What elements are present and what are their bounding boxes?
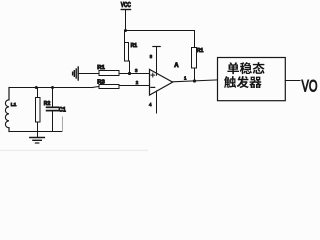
svg-text:R1: R1 [197,48,204,54]
svg-text:4: 4 [149,102,152,107]
svg-text:R1: R1 [97,65,105,71]
label 触发器 [224,76,262,88]
node output junction [193,79,196,82]
capacitor C1 [47,88,67,132]
wire op-amp V+ stub [153,47,160,76]
svg-text:L1: L1 [11,102,17,107]
resistor R1 right vertical [192,48,204,82]
label 单稳态 [227,62,264,74]
wire top rail [126,30,195,32]
wire right drop [194,31,196,48]
svg-text:A: A [174,63,179,69]
ground (left, rotated) [73,67,79,80]
inductor L1 [5,88,16,132]
wire output [173,80,218,82]
svg-text:R2: R2 [44,101,51,107]
resistor R1 top horizontal [78,65,149,75]
power VCC [121,2,131,31]
resistor R2 tank [36,88,51,132]
wire tank right edge (faint) [62,117,64,132]
wire tank bottom [9,131,63,133]
node tank-C junction [51,86,54,89]
ground (tank) [30,132,44,144]
op-amp A [150,63,180,95]
svg-text:VO: VO [302,78,318,96]
node top-rail junction [124,29,127,32]
wire box output [285,80,300,82]
node tank-R junction [35,86,38,89]
node noninverting junction [128,72,131,75]
wire op-amp V- stub [156,91,158,113]
resistor R3 bottom horizontal [97,79,149,88]
svg-text:R3: R3 [97,79,105,85]
svg-text:VCC: VCC [121,2,131,9]
svg-text:C1: C1 [59,108,67,114]
wire tank top [9,87,92,89]
monostable trigger box U1 [218,58,286,101]
svg-text:R1: R1 [131,43,138,49]
resistor R1 left vertical [125,31,138,74]
